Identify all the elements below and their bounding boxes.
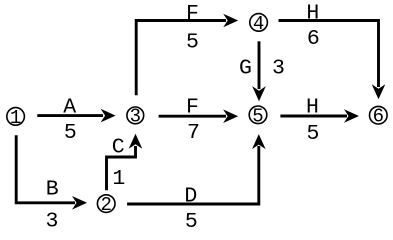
wire A arrow from node 1 to node 3 bbox=[37, 109, 115, 123]
svg-text:5: 5 bbox=[252, 105, 263, 127]
svg-text:5: 5 bbox=[306, 122, 319, 146]
wire B arrow from node 1 down then right to node 2 bbox=[16, 135, 87, 209]
svg-text:5: 5 bbox=[64, 121, 77, 145]
svg-text:3: 3 bbox=[272, 57, 285, 81]
wire H (top) arrow from node 4 right then down to node 6 bbox=[279, 21, 386, 100]
wire H (middle) arrow from node 5 to node 6 bbox=[280, 109, 359, 123]
svg-text:F: F bbox=[186, 95, 199, 119]
svg-text:4: 4 bbox=[253, 13, 264, 35]
svg-text:5: 5 bbox=[186, 31, 199, 55]
svg-text:5: 5 bbox=[185, 210, 198, 232]
svg-text:2: 2 bbox=[100, 194, 111, 216]
svg-text:6: 6 bbox=[307, 27, 320, 51]
svg-text:1: 1 bbox=[112, 167, 125, 191]
wire C arrow from node 2 up to node 3 bbox=[107, 134, 143, 191]
node 6 bbox=[370, 106, 388, 128]
node 3 bbox=[127, 106, 144, 128]
svg-text:A: A bbox=[63, 95, 76, 119]
svg-text:H: H bbox=[306, 95, 319, 119]
node 5 bbox=[249, 105, 267, 127]
svg-text:1: 1 bbox=[10, 107, 21, 129]
wire G arrow from node 4 down to node 5 bbox=[252, 41, 266, 101]
wire D arrow from node 2 right then up to node 5 bbox=[127, 134, 266, 204]
svg-text:F: F bbox=[186, 2, 199, 26]
svg-text:7: 7 bbox=[187, 121, 200, 145]
node 2 bbox=[97, 194, 115, 216]
svg-text:B: B bbox=[46, 178, 59, 202]
svg-text:3: 3 bbox=[130, 106, 141, 128]
svg-text:G: G bbox=[239, 57, 252, 81]
svg-text:H: H bbox=[306, 2, 319, 26]
svg-text:C: C bbox=[112, 136, 125, 160]
svg-text:6: 6 bbox=[373, 106, 384, 128]
node 4 bbox=[250, 13, 268, 35]
wire F (middle) arrow from node 3 to node 5 bbox=[159, 109, 239, 123]
wire F (top) arrow from node 3 up then right to node 4 bbox=[136, 14, 238, 96]
svg-text:D: D bbox=[184, 184, 197, 208]
node 1 bbox=[7, 107, 25, 129]
svg-text:3: 3 bbox=[46, 210, 59, 233]
